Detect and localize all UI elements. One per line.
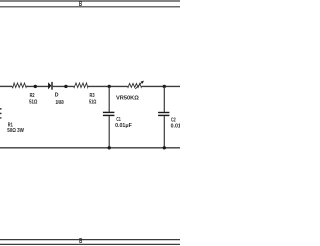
resistor R1 (clipped at left edge) (0, 108, 2, 119)
svg-text:R3: R3 (90, 93, 95, 99)
node junction dot 1 (34, 85, 37, 88)
wire diode to R3 (53, 85, 74, 87)
node junction dot 3 (108, 85, 111, 88)
wire R3 to VR (88, 85, 128, 87)
label R2 value (29, 93, 37, 105)
svg-text:B: B (79, 1, 82, 8)
wire C1 branch upper (108, 86, 110, 111)
label R3 value (89, 93, 96, 105)
node B top rail 2 (0, 6, 180, 8)
node B top rail 1 (0, 0, 180, 2)
svg-text:0.01μF: 0.01μF (115, 123, 132, 129)
wire C2 branch lower (163, 116, 165, 148)
node junction dot 6 (163, 146, 166, 149)
label C2 value (171, 118, 188, 130)
svg-text:B: B (79, 238, 82, 245)
diode D (48, 82, 53, 90)
wire R2 to diode (26, 85, 48, 87)
wire bottom return (0, 147, 180, 149)
capacitor C2 (158, 112, 169, 116)
svg-text:1N60: 1N60 (56, 100, 64, 106)
node junction dot 4 (163, 85, 166, 88)
resistor R2 (12, 83, 27, 88)
wire main horizontal left segment (0, 85, 12, 87)
svg-text:R2: R2 (30, 93, 35, 99)
wire C1 branch lower (108, 116, 110, 148)
svg-text:50Ω 3W: 50Ω 3W (7, 128, 24, 134)
wire VR to right edge (142, 85, 180, 87)
svg-text:51Ω: 51Ω (29, 99, 37, 105)
wire C2 branch upper (163, 86, 165, 112)
svg-text:VR50KΩ: VR50KΩ (116, 96, 139, 102)
node junction dot 2 (64, 85, 67, 88)
svg-text:51Ω: 51Ω (89, 100, 96, 106)
capacitor C1 (103, 112, 115, 116)
node junction dot 5 (108, 146, 111, 149)
node B bottom rail 1 (0, 239, 180, 241)
svg-text:D: D (55, 93, 59, 99)
label D value (55, 93, 64, 106)
potentiometer VR zigzag (128, 83, 142, 87)
svg-text:0.01μF: 0.01μF (171, 123, 180, 129)
node B bottom rail 2 (0, 243, 180, 245)
resistor R3 (74, 83, 88, 88)
label C1 value (115, 117, 132, 129)
potentiometer VR wiper arrow (135, 81, 144, 89)
label R1 value (7, 122, 24, 133)
